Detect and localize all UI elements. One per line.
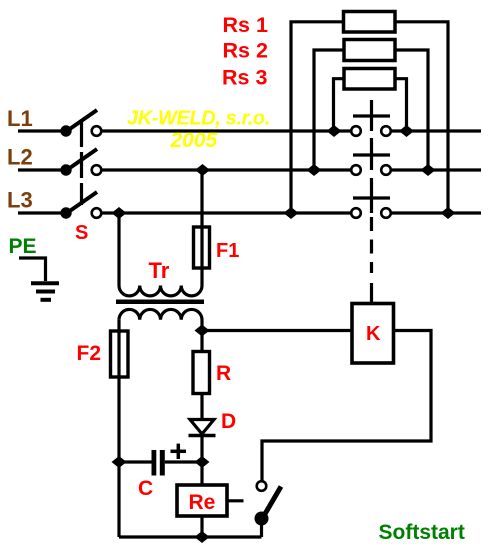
net label L3 (7, 188, 33, 213)
resistor R label (216, 362, 231, 385)
wire L1 right segment (392, 129, 482, 132)
contactor K pole 3 fixed contact right (381, 208, 391, 218)
wire secondary right down to resistor R (200, 331, 203, 352)
svg-text:S: S (75, 222, 88, 244)
transformer Tr core bar (116, 300, 204, 305)
company text 2005 (170, 129, 218, 152)
transformer Tr label (149, 258, 170, 283)
resistor Rs3 label (222, 66, 267, 90)
fuse F1 body (194, 227, 210, 268)
junction at Re bottom (195, 531, 210, 543)
junction on L3 at transformer primary (112, 207, 127, 219)
switch S pole 1 blade (64, 110, 97, 133)
contactor K pole 2 fixed contact left (351, 165, 361, 175)
svg-text:L3: L3 (7, 188, 33, 213)
wire Rs2 right lead (395, 50, 428, 170)
svg-text:F1: F1 (216, 240, 239, 262)
switch S pole 3 contact circle (92, 208, 102, 218)
capacitor C right plate (160, 450, 165, 476)
wire Rs3 right lead (395, 79, 407, 131)
capacitor C label (138, 477, 153, 500)
relay contact Re fixed terminal circle (257, 481, 267, 491)
wire Rs2 left lead (314, 50, 344, 170)
wire coil K right lead to Re contact (262, 331, 431, 481)
relay contact Re hinge dot (255, 512, 269, 526)
resistor Rs1 body (344, 12, 396, 33)
relay coil Re label (189, 491, 216, 514)
resistor R body (193, 352, 210, 394)
switch S label (75, 222, 88, 244)
diode D cathode bar (189, 434, 216, 438)
switch S pole 3 hinge dot (60, 207, 71, 218)
fuse F2 body (111, 331, 129, 377)
junction on L1 at Rs3 right (399, 125, 414, 137)
wire Rs1 right lead (395, 22, 448, 213)
svg-text:2005: 2005 (170, 129, 218, 152)
transformer Tr primary winding (wire from L2 through F1 down, 4 arcs to L3 riser) (119, 170, 202, 296)
svg-text:PE: PE (9, 235, 37, 258)
contactor K pole 2 fixed contact right (381, 165, 391, 175)
wire L2 left segment (18, 168, 63, 171)
ground PE symbol (19, 258, 59, 300)
wire L3 left segment (18, 211, 63, 214)
contactor K pole 1 actuator cross (353, 100, 390, 131)
switch S pole 3 blade (64, 192, 97, 215)
junction on L1 at Rs3 left (327, 125, 342, 137)
wire L2 middle segment (102, 168, 351, 171)
contactor K pole 2 actuator cross (353, 138, 390, 170)
switch S pole 2 contact circle (92, 165, 102, 175)
wire R to diode D (200, 394, 203, 421)
svg-text:Rs 2: Rs 2 (223, 39, 268, 63)
junction at capacitor left (112, 456, 127, 468)
diode D label (221, 410, 236, 433)
wire Rs3 left lead (334, 79, 345, 131)
wire capacitor left lead (119, 460, 152, 463)
svg-text:Tr: Tr (149, 258, 170, 283)
svg-text:L2: L2 (7, 145, 33, 170)
wire secondary left column down to bottom (117, 320, 120, 537)
wire contact to bottom wire (260, 522, 263, 537)
junction on L2 at Rs2 right (421, 164, 436, 176)
resistor Rs3 body (344, 69, 395, 90)
switch S mechanical link (dashed) (80, 121, 83, 205)
svg-text:R: R (216, 362, 231, 385)
wire Rs1 left lead (291, 22, 344, 213)
svg-text:C: C (138, 477, 153, 500)
resistor Rs2 label (223, 39, 268, 63)
relay coil Re box (177, 485, 227, 516)
svg-text:K: K (366, 323, 381, 345)
contactor coil K label (366, 323, 381, 345)
svg-text:L1: L1 (7, 106, 33, 131)
junction at transformer secondary right (195, 325, 210, 337)
switch S pole 2 blade (64, 149, 97, 172)
junction on L2 at Rs2 left (307, 164, 322, 176)
svg-text:Rs 1: Rs 1 (223, 13, 268, 37)
transformer Tr secondary winding (119, 309, 202, 330)
net label L1 (7, 106, 33, 131)
wire secondary bottom return (119, 535, 262, 538)
wire L3 middle segment (102, 211, 351, 214)
contactor K pole 1 fixed contact right (381, 126, 391, 136)
junction on L2 at fuse F1 (195, 164, 210, 176)
junction at capacitor right / diode node (195, 456, 210, 468)
wire L1 left segment (18, 129, 63, 132)
svg-text:Softstart: Softstart (379, 521, 465, 544)
switch S pole 2 hinge dot (60, 164, 71, 175)
wire diode to node (200, 436, 203, 462)
junction on L3 at Rs1 left (284, 207, 299, 219)
svg-text:D: D (221, 410, 236, 433)
capacitor C left plate (152, 450, 157, 476)
title text Softstart (379, 521, 465, 544)
relay contact Re blade (262, 487, 281, 520)
net label L2 (7, 145, 33, 170)
svg-text:JK-WELD, s.r.o.: JK-WELD, s.r.o. (127, 108, 270, 130)
svg-text:Rs 3: Rs 3 (222, 66, 267, 90)
resistor Rs1 label (223, 13, 268, 37)
fuse F1 label (216, 240, 239, 262)
svg-text:Re: Re (189, 491, 216, 514)
contactor K pole 3 actuator cross (353, 178, 390, 213)
fuse F2 label (77, 342, 102, 365)
wire L1 middle segment (102, 129, 351, 132)
wire L2 right segment (392, 168, 482, 171)
wire L3 right segment (392, 211, 482, 214)
contactor K actuator dashed link (370, 217, 373, 304)
capacitor C polarity plus sign (171, 444, 187, 459)
switch S pole 1 contact circle (92, 126, 102, 136)
contactor K pole 3 fixed contact left (351, 208, 361, 218)
wire capacitor right lead (165, 460, 202, 463)
junction on L3 at Rs1 right (441, 207, 456, 219)
company text JK-WELD, s.r.o. (127, 108, 270, 130)
wire relay Re side stub (227, 499, 244, 502)
wire coil K left lead (202, 329, 352, 332)
power symbol PE label (9, 235, 37, 258)
contactor K pole 1 fixed contact left (351, 126, 361, 136)
wire relay Re bottom lead (200, 516, 203, 537)
wire node to relay Re (200, 462, 203, 485)
diode D body (190, 420, 214, 435)
svg-text:F2: F2 (77, 342, 102, 365)
resistor Rs2 body (344, 40, 395, 61)
contactor coil K box (352, 304, 394, 364)
switch S pole 1 hinge dot (60, 125, 71, 136)
